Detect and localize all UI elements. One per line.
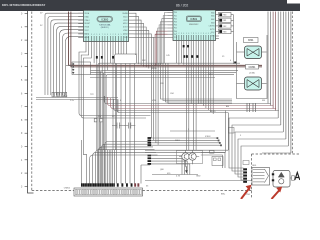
connector CN801 box	[72, 62, 91, 75]
svg-text:9: 9	[107, 34, 108, 36]
svg-text:P05: P05	[174, 28, 177, 30]
op-amp U IC800 body	[84, 10, 129, 41]
svg-text:P04: P04	[174, 25, 177, 27]
svg-text:P01: P01	[174, 15, 177, 17]
bus gray y77.5	[90, 77, 215, 79]
wire bundle left of IC801 down to CN pins	[151, 64, 153, 139]
transistor Q802	[189, 153, 196, 160]
resistor box R82	[216, 25, 219, 27]
svg-text:4.7K: 4.7K	[176, 176, 181, 178]
wire from R83	[231, 31, 234, 33]
ruler tick 5	[25, 79, 28, 81]
red arrow 1	[241, 185, 252, 199]
connector J801 black pins	[243, 168, 247, 170]
bus extra y112.5	[117, 100, 228, 113]
CN802 maroon pins	[134, 183, 136, 186]
FFC box output wires	[116, 64, 118, 184]
svg-text:P00: P00	[174, 12, 177, 14]
svg-text:MUTE: MUTE	[210, 111, 216, 113]
svg-text:B86-: B86-	[221, 194, 226, 196]
svg-text:R82: R82	[223, 26, 226, 28]
CN802 pin boxes	[76, 189, 77, 195]
wire bundle IC801 bottom verticals	[176, 41, 178, 64]
wire bundle IC801 left pins	[165, 13, 168, 64]
svg-text:VREF: VREF	[123, 30, 128, 32]
right verticals turning left to bottom connector	[229, 118, 278, 168]
svg-text:AN1: AN1	[211, 15, 214, 18]
verticals x225	[225, 111, 227, 153]
svg-text:M30620FC: M30620FC	[189, 24, 199, 26]
dashed border bottom	[32, 190, 252, 192]
P801 circle	[279, 179, 284, 184]
ruler tick 1	[25, 26, 28, 28]
ruler tick 6	[25, 92, 28, 94]
spaced feed extra	[141, 165, 150, 184]
svg-text:6: 6	[210, 33, 211, 35]
connector J801 box	[252, 168, 270, 186]
wire y150 long	[145, 149, 228, 151]
svg-text:R80: R80	[223, 15, 226, 17]
wire bundle IC800 left pins	[45, 13, 84, 95]
svg-text:9: 9	[196, 33, 197, 35]
svg-text:5: 5	[121, 34, 122, 36]
X801 left lead	[237, 51, 245, 53]
wire bundle mid x160 down	[161, 64, 233, 100]
cap symbol C85	[112, 123, 124, 129]
chip caps on group1	[96, 56, 98, 59]
svg-text:R81: R81	[223, 20, 226, 22]
wire bundle IC800 bottom verticals group2	[112, 42, 114, 151]
wire vertical collector x233	[233, 15, 235, 64]
wire y131	[170, 130, 215, 132]
filter CF801 body	[245, 77, 262, 90]
svg-text:CNVSS: CNVSS	[209, 26, 216, 28]
connector pin group1	[148, 137, 152, 139]
chip caps just under IC801	[183, 45, 185, 47]
J801 chevron	[265, 169, 269, 183]
chip caps under IC801	[183, 55, 185, 58]
J801 pin rows	[253, 169, 265, 171]
wire bundle straight into connector	[96, 150, 98, 184]
ruler tick 0	[25, 13, 28, 15]
P801 left pins	[272, 173, 274, 175]
wire from R80	[231, 14, 234, 16]
svg-text:KDV-4070RA/4580RA/4580RAY: KDV-4070RA/4580RA/4580RAY	[2, 3, 45, 7]
X801 right lead	[262, 51, 267, 53]
P801 triangle	[278, 172, 284, 177]
bus gray corner wires	[98, 63, 240, 150]
crystal label box X801	[244, 38, 259, 43]
svg-text:AN0: AN0	[211, 11, 214, 14]
resistor box R80	[216, 14, 219, 16]
ruler line	[28, 11, 34, 194]
transistor module box	[177, 151, 203, 164]
ruler tick 2	[25, 39, 28, 41]
svg-text:AN2: AN2	[211, 18, 214, 21]
wire bundle right verticals	[267, 12, 269, 104]
title bar notch top-right	[287, 0, 300, 4]
svg-text:5: 5	[186, 33, 187, 35]
bus wire lower left horizontal	[36, 97, 118, 99]
box sub assembly	[212, 157, 223, 166]
dashed border right upper	[291, 12, 293, 155]
svg-text:IC803: IC803	[205, 136, 211, 138]
resistor box R81	[216, 19, 219, 21]
filter label box CF801	[246, 65, 259, 70]
IC800 bottom pin comb	[85, 36, 87, 42]
connector CN802 outline	[74, 188, 143, 196]
terminal squares group1	[217, 137, 219, 139]
svg-text:(4.5M): (4.5M)	[249, 73, 255, 75]
wire bundle IC800 bottom verticals group1	[96, 42, 98, 151]
connector pin group2	[148, 155, 152, 157]
svg-text:RJBVDD3AA: RJBVDD3AA	[99, 23, 111, 26]
svg-text:P03: P03	[174, 22, 177, 24]
IC800 left pin stubs	[78, 12, 83, 14]
dashed border left	[31, 12, 33, 191]
CN801 pins	[72, 63, 74, 65]
node dot	[234, 62, 236, 64]
dashed border right horizontal	[252, 153, 301, 155]
ruler tick 3	[25, 52, 28, 54]
IC801 bottom pin comb	[176, 35, 178, 41]
svg-text:5: 5	[96, 34, 97, 36]
ruler tick 11	[25, 159, 28, 161]
ruler tick 8	[25, 119, 28, 121]
svg-text:4: 4	[183, 33, 184, 35]
svg-text:XTALO: XTALO	[84, 19, 90, 22]
svg-text:VSS: VSS	[152, 100, 157, 102]
IC801 left pin stubs	[168, 12, 174, 14]
ruler tick 7	[25, 106, 28, 108]
short stubs IC800 bottom	[93, 42, 95, 64]
svg-text:SDATA: SDATA	[122, 12, 128, 15]
svg-text:X801: X801	[248, 39, 254, 42]
label A	[295, 173, 300, 181]
op-amp U IC801 body	[173, 10, 216, 41]
svg-text:CF801: CF801	[249, 67, 257, 69]
box small right	[229, 128, 235, 134]
resistor box R820	[210, 151, 215, 154]
wire bundle nested into connector left part	[105, 142, 151, 184]
CN802 black pin bar	[81, 183, 83, 186]
svg-text:XTALI: XTALI	[84, 15, 89, 18]
CN802 spaced pins	[117, 183, 119, 186]
CF801 left lead	[237, 83, 245, 85]
Q801 leads	[179, 151, 199, 167]
svg-text:FM: FM	[262, 100, 265, 102]
ruler tick 12	[25, 172, 28, 174]
CF801 right lead	[262, 83, 267, 85]
red arrow 2	[272, 187, 283, 200]
wire bundle IC800 bottom left nested	[79, 42, 151, 116]
P801 right pin	[290, 177, 292, 179]
wires right of transistors	[201, 153, 225, 169]
svg-text:RESET: RESET	[84, 23, 90, 25]
CN801 output stubs	[91, 70, 107, 74]
svg-text:R83: R83	[223, 31, 226, 33]
svg-text:IC801: IC801	[190, 17, 197, 21]
svg-text:(SERVO): (SERVO)	[101, 27, 109, 29]
svg-text:P06: P06	[174, 31, 177, 33]
svg-text:GND: GND	[196, 176, 201, 178]
crystal X801 body	[245, 46, 262, 59]
CN801 input stub	[66, 65, 72, 67]
ruler tick 4	[25, 66, 28, 68]
right vertical k9 turn	[262, 152, 291, 154]
dashed border right lower	[251, 154, 253, 199]
svg-text:CN802: CN802	[64, 188, 71, 190]
wire maroon L-run 1	[69, 12, 262, 66]
svg-text:1: 1	[198, 33, 199, 35]
cap symbol C86	[124, 123, 135, 129]
long horizontals above bottom connector	[145, 180, 255, 182]
chip caps on group2	[112, 56, 114, 59]
svg-text:6: 6	[123, 34, 124, 36]
svg-text:1: 1	[110, 34, 111, 36]
wire bundle IC800 right to mid bus	[134, 13, 137, 63]
svg-text:AN3: AN3	[211, 21, 214, 24]
IC801 label box	[186, 16, 201, 22]
transistor Q801	[182, 153, 189, 160]
IC800 label box	[97, 16, 113, 22]
svg-text:TEST: TEST	[84, 30, 88, 32]
svg-text:6: 6	[188, 33, 189, 35]
connector FFC box under IC800	[115, 54, 137, 64]
svg-text:86 / 202: 86 / 202	[176, 4, 188, 8]
ruler tick 13	[25, 185, 28, 187]
resistor R811	[100, 119, 103, 122]
IC800 right pin stubs	[129, 12, 134, 14]
svg-text:P02: P02	[174, 18, 177, 20]
cap pair right	[247, 103, 256, 112]
wire maroon L-run 2	[71, 12, 262, 67]
wire from R82	[231, 25, 234, 27]
Q802 leads	[192, 151, 194, 165]
title bar	[0, 0, 300, 11]
enclosure wires	[237, 35, 268, 99]
svg-text:DOUT: DOUT	[123, 27, 128, 29]
J801 top label box	[243, 161, 249, 165]
svg-text:2.2u: 2.2u	[70, 100, 74, 102]
coil hooks L801	[52, 92, 54, 97]
svg-text:AM: AM	[226, 105, 229, 108]
wire from R81	[231, 19, 234, 21]
svg-text:5: 5	[208, 33, 209, 35]
leftmost connector feed	[81, 140, 83, 184]
svg-text:4: 4	[94, 34, 95, 36]
arrow down symbol	[186, 167, 188, 171]
svg-text:IC800: IC800	[101, 17, 108, 21]
resistor box R83	[216, 31, 219, 33]
ruler tick 10	[25, 146, 28, 148]
plug P801 body	[273, 171, 290, 188]
ruler tick 9	[25, 132, 28, 134]
resistor R810	[94, 119, 97, 122]
bus group y103	[104, 96, 270, 104]
